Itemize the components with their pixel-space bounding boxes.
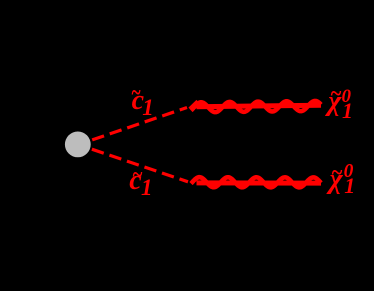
label chi10 (upper): chi [328,88,341,116]
label c1-tilde (lower): c [129,167,141,195]
label c1-tilde (upper): subscript 1 [142,96,154,119]
label c1-tilde (lower): tilde [132,163,143,187]
wire: upper scalar charm propagator c1 (dashed) [92,108,187,140]
label c1-tilde (lower): subscript 1 [141,176,153,199]
label chi10 (upper): superscript 0 [342,87,352,106]
label chi10 (lower): superscript 0 [344,162,354,182]
wire: lower scalar charm propagator c1 (dashed) [92,149,188,182]
wire: lower neutralino wavy line [191,177,321,187]
wire: upper neutralino wavy line [191,101,321,112]
label c1-tilde (upper): c [132,87,144,115]
label chi10 (upper): tilde [330,82,342,106]
label chi10 (upper): subscript 1 [342,100,353,122]
wire: lower neutralino straight line [197,180,322,185]
label c1-tilde (upper): tilde [131,81,141,105]
label chi10 (lower): chi [330,166,343,194]
label chi10 (lower): subscript 1 [344,175,355,197]
proton blob [65,132,91,158]
node A: upper decay vertex artifact stroke [189,100,197,108]
wire: upper neutralino straight line [197,105,322,107]
label chi10 (lower): tilde [331,161,343,185]
